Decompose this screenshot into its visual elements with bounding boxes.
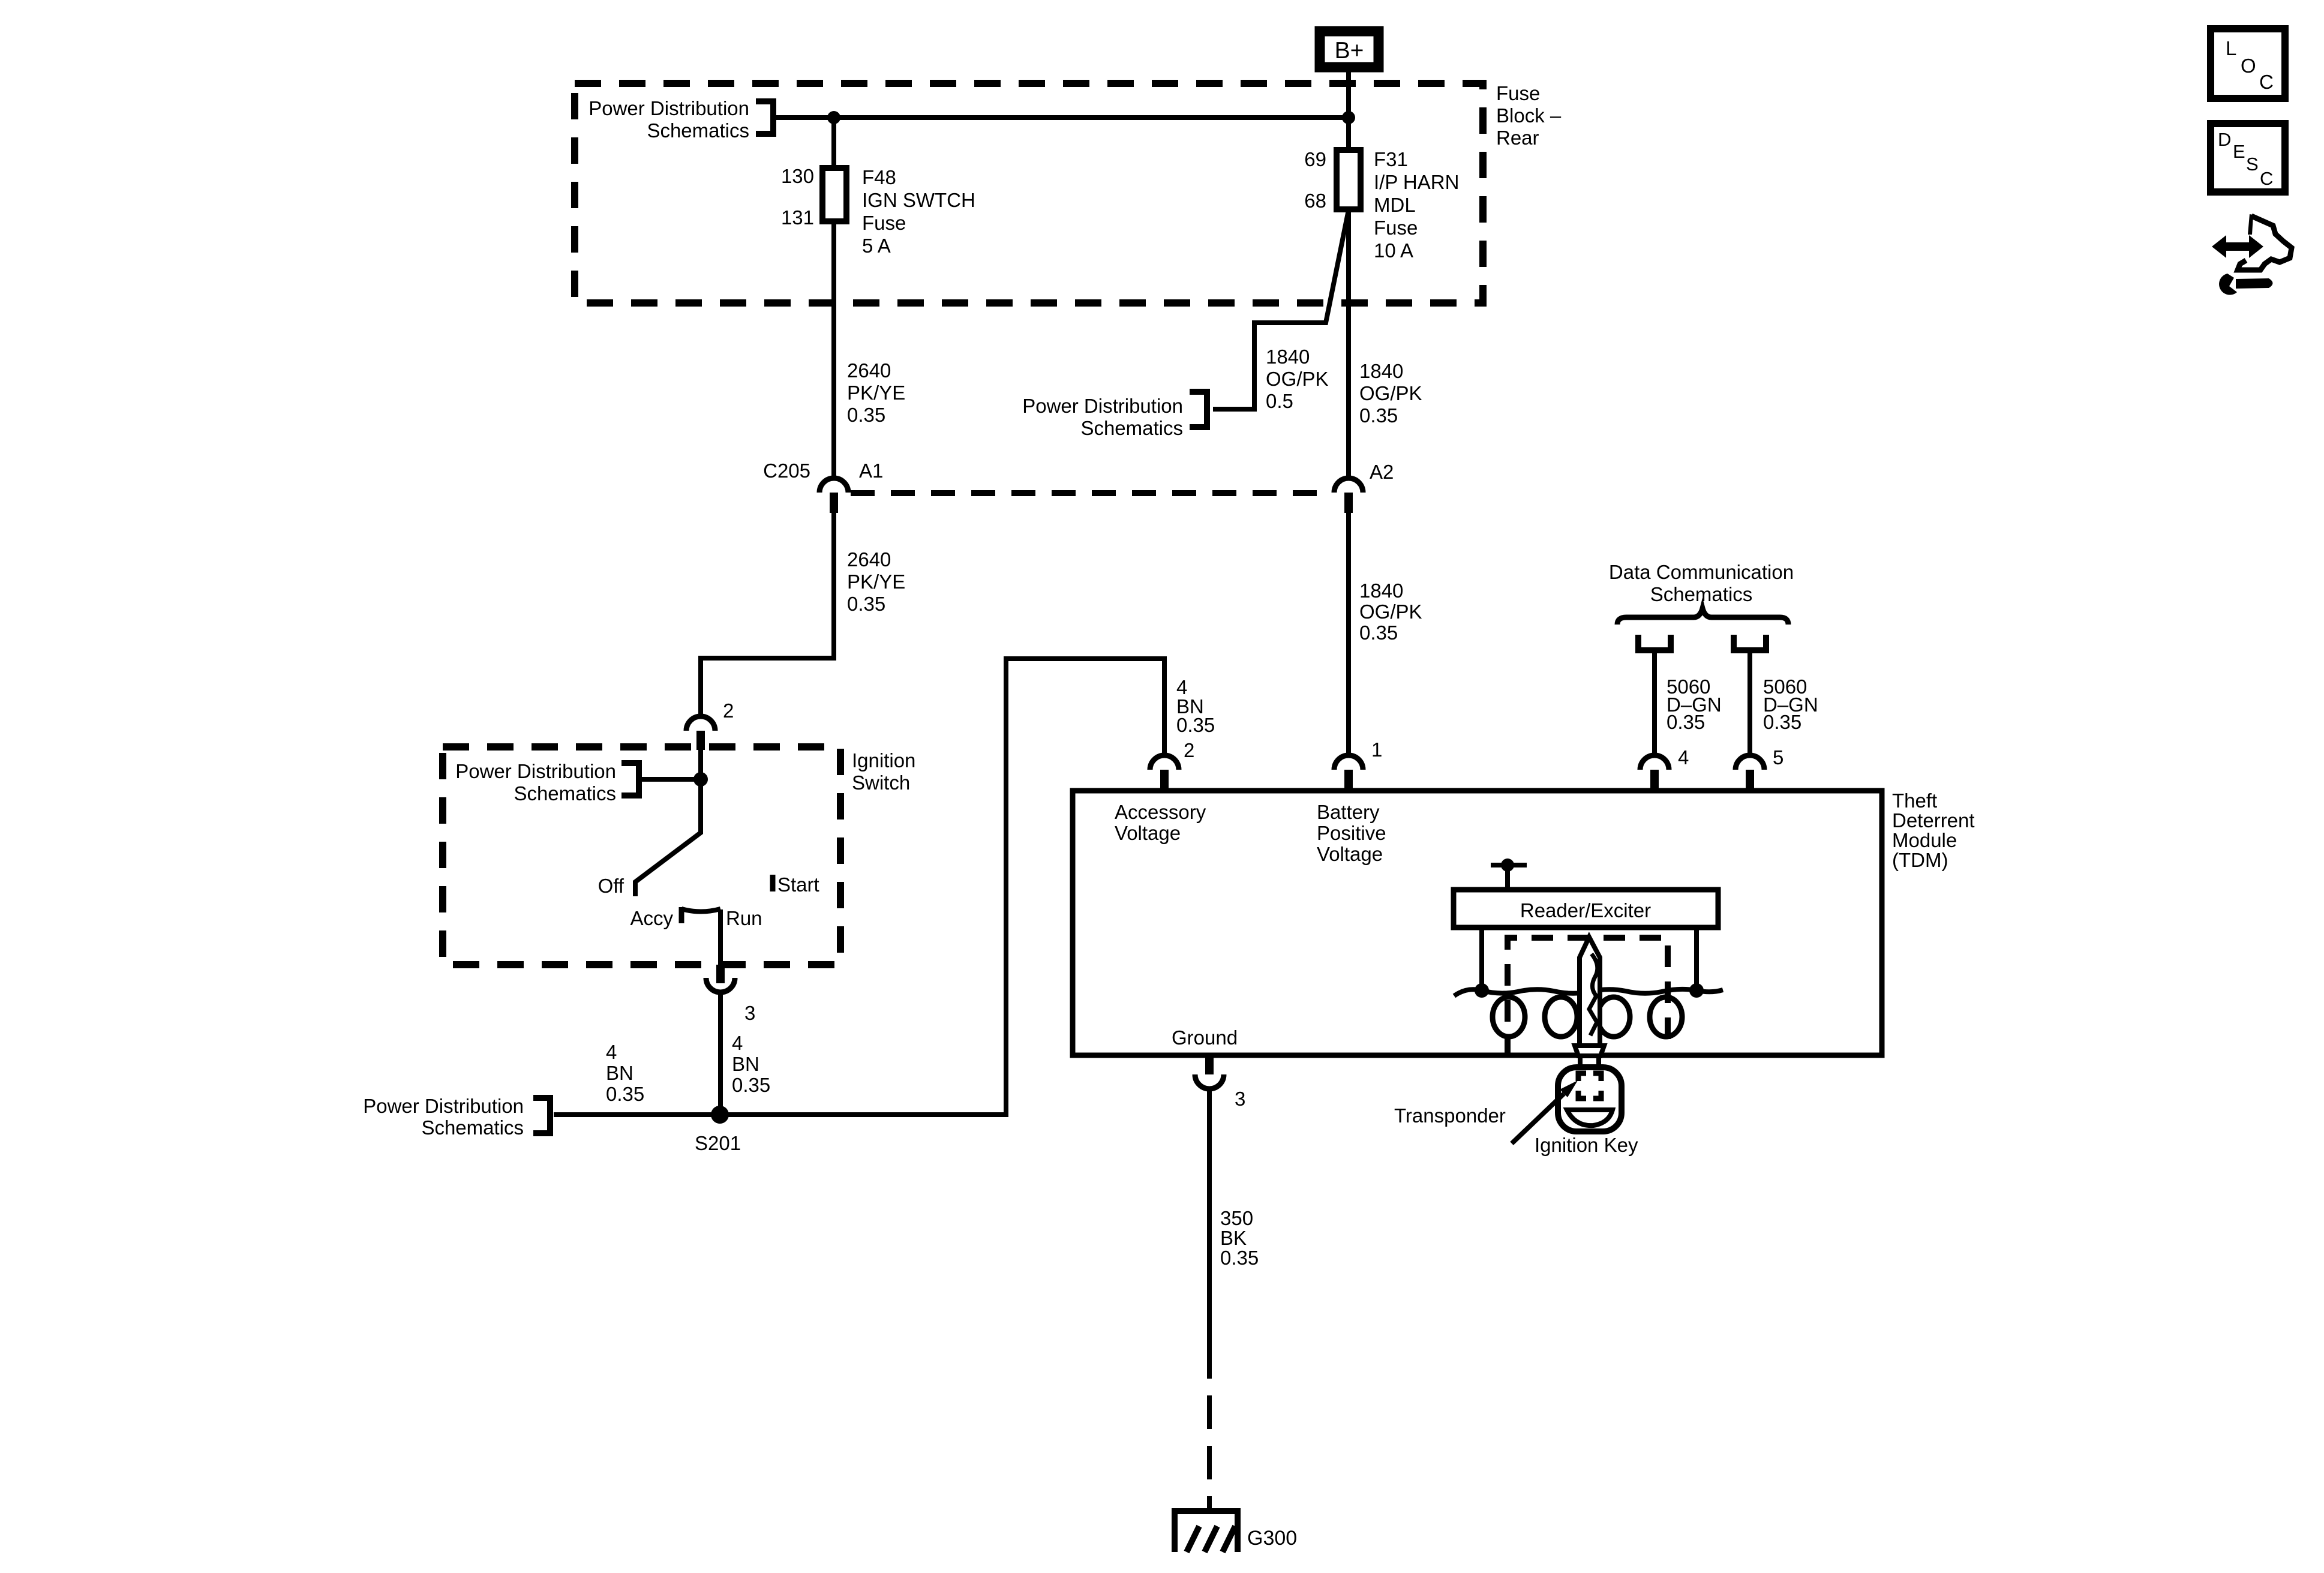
svg-text:Power Distribution: Power Distribution [1022, 395, 1183, 417]
svg-text:Fuse: Fuse [862, 212, 906, 234]
arrow transponder pointer [1512, 1080, 1578, 1143]
wire B+ down to fuse block [1346, 72, 1351, 150]
svg-text:Ignition: Ignition [852, 749, 915, 772]
icon DESC box [2211, 124, 2285, 192]
node switch feed junction [693, 772, 708, 786]
svg-text:S201: S201 [695, 1132, 741, 1154]
svg-text:B+: B+ [1335, 38, 1364, 64]
node junction at F48 branch [827, 111, 840, 124]
svg-text:10 A: 10 A [1374, 239, 1413, 262]
svg-text:2: 2 [723, 700, 734, 722]
connector pin 2 ignition switch [686, 716, 715, 750]
svg-text:BN: BN [606, 1062, 633, 1084]
svg-text:0.35: 0.35 [1359, 622, 1398, 644]
transponder dashed square [1578, 1073, 1601, 1098]
svg-text:Schematics: Schematics [514, 782, 616, 804]
svg-text:0.35: 0.35 [1763, 711, 1801, 733]
svg-text:69: 69 [1304, 148, 1326, 170]
ignition key collar [1575, 1046, 1604, 1067]
ignition key head [1558, 1067, 1622, 1131]
connector pin 2 TDM [1150, 755, 1179, 789]
svg-text:0.5: 0.5 [1266, 390, 1293, 412]
svg-text:131: 131 [781, 206, 814, 229]
connector pin 3 ignition switch [706, 965, 735, 992]
wire 5060 D-GN right [1747, 653, 1752, 755]
svg-text:PK/YE: PK/YE [847, 382, 905, 404]
svg-text:2: 2 [1184, 739, 1194, 761]
connector pin 1 TDM [1334, 755, 1363, 789]
svg-text:OG/PK: OG/PK [1266, 368, 1329, 390]
wire Accy bridge to Run [681, 909, 720, 912]
wavy antenna line [1454, 989, 1723, 996]
bracket to Power Distribution Schematics (ignition switch) [621, 763, 639, 795]
svg-text:A1: A1 [859, 460, 883, 482]
coil loop 3 [1598, 997, 1630, 1037]
off-page connector U left [1638, 635, 1671, 650]
svg-text:OG/PK: OG/PK [1359, 382, 1422, 404]
icon wrench [2219, 274, 2272, 295]
svg-text:Battery: Battery [1317, 801, 1380, 823]
wire 1840 OG/PK below A2 [1346, 512, 1351, 755]
coil loop 2 [1545, 997, 1577, 1037]
svg-text:PK/YE: PK/YE [847, 571, 905, 593]
wire 2640 PK/YE from A1 down to ignition switch pin 2 [701, 512, 834, 716]
module TDM box [1073, 791, 1882, 1055]
svg-text:C205: C205 [763, 460, 810, 482]
antenna bar Reader/Exciter [1491, 858, 1527, 890]
svg-text:A2: A2 [1370, 461, 1394, 483]
fuse F48 IGN SWTCH 5A [822, 168, 846, 221]
wire 4 BN from pin 3 to S201 [718, 992, 723, 1115]
wire exciter right drop [1694, 927, 1699, 990]
svg-text:Fuse: Fuse [1374, 217, 1418, 239]
svg-text:L: L [2226, 37, 2236, 59]
icon LOC box [2211, 29, 2285, 98]
icon LOC letters [2226, 37, 2274, 93]
svg-text:G300: G300 [1247, 1527, 1297, 1550]
svg-text:Schematics: Schematics [421, 1116, 524, 1139]
svg-text:Schematics: Schematics [1650, 583, 1753, 605]
icon DESC letters [2218, 129, 2273, 189]
Reader/Exciter box [1454, 890, 1718, 927]
svg-text:BN: BN [732, 1053, 759, 1075]
svg-text:MDL: MDL [1374, 194, 1416, 216]
svg-text:0.35: 0.35 [1359, 404, 1398, 427]
svg-text:Schematics: Schematics [1080, 417, 1183, 439]
icon double arrow [2212, 235, 2263, 258]
wire 350 BK solid [1207, 1089, 1212, 1377]
wire S201 bus [554, 659, 1164, 1115]
svg-text:2640: 2640 [847, 548, 891, 571]
svg-text:Start: Start [777, 873, 819, 896]
svg-text:Switch: Switch [852, 772, 910, 794]
ground G300 symbol [1172, 1511, 1241, 1552]
svg-text:Theft: Theft [1892, 789, 1937, 812]
svg-text:Schematics: Schematics [647, 119, 749, 142]
node exciter left [1475, 983, 1489, 998]
contact Accy [679, 907, 684, 923]
svg-text:Rear: Rear [1496, 127, 1539, 149]
svg-text:F31: F31 [1374, 148, 1408, 170]
contact Start [770, 875, 776, 891]
svg-text:Module: Module [1892, 829, 1957, 851]
coil loop 4 [1650, 997, 1682, 1037]
svg-text:OG/PK: OG/PK [1359, 601, 1422, 623]
svg-text:Block –: Block – [1496, 104, 1562, 127]
svg-text:S: S [2246, 154, 2259, 175]
bracket to Power Distribution Schematics (1840 branch) [1190, 392, 1207, 427]
svg-text:0.35: 0.35 [1667, 711, 1705, 733]
connector pin 4 TDM [1640, 755, 1669, 789]
wire Run contact down to pin 3 [718, 909, 723, 965]
ignition switch dashed box [443, 747, 840, 965]
svg-text:IGN SWTCH: IGN SWTCH [862, 189, 975, 211]
wire F31 bottom lead to C205 A2 [1346, 209, 1351, 479]
svg-text:4: 4 [732, 1032, 743, 1054]
svg-text:O: O [2241, 55, 2256, 77]
svg-text:Fuse: Fuse [1496, 82, 1540, 104]
svg-text:Transponder: Transponder [1394, 1104, 1506, 1127]
svg-text:350: 350 [1220, 1207, 1253, 1229]
wire F48 top lead [831, 118, 836, 168]
svg-text:Power Distribution: Power Distribution [455, 760, 616, 782]
svg-text:1840: 1840 [1359, 360, 1403, 382]
wire F48 bottom lead to C205 A1 [831, 221, 836, 479]
wire bus from bracket to B+ line [776, 115, 1349, 120]
svg-text:Data Communication: Data Communication [1609, 561, 1794, 583]
svg-text:Accessory: Accessory [1115, 801, 1206, 823]
svg-text:Power Distribution: Power Distribution [363, 1095, 524, 1117]
icon pointer outline [2238, 214, 2292, 270]
svg-text:Positive: Positive [1317, 822, 1386, 844]
connector pin 5 TDM [1736, 755, 1764, 789]
svg-text:Ignition Key: Ignition Key [1535, 1134, 1638, 1156]
svg-text:Voltage: Voltage [1115, 822, 1181, 844]
svg-text:2640: 2640 [847, 359, 891, 382]
wire exciter left drop [1479, 927, 1484, 990]
connector C205 dashed body line [851, 490, 1332, 496]
svg-text:0.35: 0.35 [847, 593, 885, 615]
coil loop 1 [1493, 997, 1525, 1037]
svg-text:I/P HARN: I/P HARN [1374, 171, 1459, 193]
svg-text:(TDM): (TDM) [1892, 849, 1948, 871]
svg-text:Voltage: Voltage [1317, 843, 1383, 865]
svg-text:130: 130 [781, 165, 814, 187]
svg-text:Deterrent: Deterrent [1892, 809, 1975, 831]
svg-text:3: 3 [744, 1002, 755, 1024]
svg-text:Power Distribution: Power Distribution [588, 97, 749, 119]
svg-text:1840: 1840 [1359, 580, 1403, 602]
svg-text:3: 3 [1235, 1088, 1245, 1110]
svg-text:0.35: 0.35 [732, 1074, 770, 1096]
splice S201 [711, 1106, 729, 1124]
wire 1840 OG/PK 0.5 branch to Power Distribution [1213, 210, 1349, 409]
wire pin2 into ignition switch [698, 750, 703, 779]
svg-text:C: C [2259, 71, 2274, 93]
svg-text:0.35: 0.35 [606, 1083, 644, 1105]
wire switch wiper to Off [635, 779, 701, 896]
svg-text:0.35: 0.35 [1176, 714, 1215, 736]
svg-text:0.35: 0.35 [847, 404, 885, 426]
wire 5060 D-GN left [1652, 653, 1657, 755]
key head slot [1567, 1110, 1613, 1125]
bracket to Power Distribution Schematics (S201) [533, 1098, 550, 1133]
connector C205 terminal A2 [1334, 478, 1363, 513]
brace Data Communication Schematics [1617, 608, 1788, 625]
transceiver dashed box [1508, 938, 1668, 1058]
svg-text:1: 1 [1371, 739, 1382, 761]
connector pin 3 TDM ground [1195, 1058, 1224, 1089]
svg-text:1840: 1840 [1266, 346, 1310, 368]
wire 350 BK dashed to G300 [1207, 1377, 1212, 1508]
off-page connector U right [1734, 635, 1766, 650]
node junction at B+ line [1342, 111, 1355, 124]
svg-text:C: C [2260, 168, 2273, 189]
ignition key blade [1580, 937, 1600, 1046]
svg-text:Run: Run [726, 907, 762, 929]
node exciter right [1689, 983, 1704, 998]
svg-text:68: 68 [1304, 190, 1326, 212]
svg-text:F48: F48 [862, 166, 896, 188]
svg-text:5: 5 [1773, 746, 1783, 769]
svg-text:BK: BK [1220, 1227, 1247, 1249]
svg-text:Reader/Exciter: Reader/Exciter [1520, 899, 1651, 921]
fuse F31 I/P HARN MDL 10A [1337, 150, 1361, 209]
svg-text:Accy: Accy [630, 907, 673, 929]
svg-text:0.35: 0.35 [1220, 1247, 1259, 1269]
svg-text:4: 4 [606, 1041, 617, 1063]
wire bracket to switch node [642, 777, 701, 782]
bracket to Power Distribution Schematics (fuse block) [756, 101, 773, 134]
svg-text:Off: Off [598, 875, 624, 897]
svg-text:5 A: 5 A [862, 235, 891, 257]
svg-text:E: E [2233, 141, 2245, 162]
svg-text:4: 4 [1678, 746, 1689, 769]
fuse block dashed outline Fuse Block Rear [575, 83, 1483, 303]
connector C205 terminal A1 [819, 478, 848, 513]
svg-text:Ground: Ground [1172, 1026, 1238, 1049]
B+ battery feed box [1320, 31, 1379, 67]
svg-text:D: D [2218, 129, 2231, 150]
